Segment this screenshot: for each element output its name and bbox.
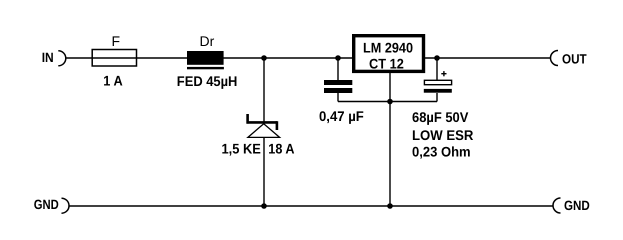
svg-text:F: F: [112, 33, 121, 49]
wire C1 bottom lead: [337, 93, 339, 102]
svg-text:0,23 Ohm: 0,23 Ohm: [412, 144, 471, 160]
node junction dot bottom rail at regulator: [387, 203, 393, 209]
svg-text:Dr: Dr: [200, 33, 215, 49]
svg-text:CT 12: CT 12: [369, 55, 404, 71]
node junction dot top rail at C1: [335, 55, 341, 61]
wire capacitor ground bus horizontal: [338, 101, 437, 103]
node junction dot top rail at diode: [261, 55, 267, 61]
wire C1 top lead: [337, 58, 339, 80]
capacitor C1 top plate: [324, 80, 352, 85]
svg-text:LM 2940: LM 2940: [363, 39, 413, 55]
wire top rail regulator to OUT: [425, 57, 551, 59]
diode D1 cathode left tick: [246, 114, 249, 124]
inductor Dr body: [187, 51, 224, 65]
svg-text:LOW ESR: LOW ESR: [412, 127, 473, 143]
diode D1 cathode right tick: [276, 121, 279, 130]
svg-text:GND: GND: [34, 197, 59, 212]
wire top rail IN to regulator: [66, 57, 353, 59]
capacitor C2 negative plate: [424, 89, 452, 93]
svg-text:GND: GND: [564, 198, 590, 213]
svg-text:18 A: 18 A: [268, 141, 294, 157]
svg-text:1 A: 1 A: [103, 73, 122, 89]
capacitor C1 bottom plate: [324, 88, 352, 93]
svg-text:IN: IN: [42, 50, 54, 65]
node junction dot ground pin and cap bus: [387, 99, 393, 105]
op-amp U1 regulator LM2940 box: [354, 36, 424, 72]
terminal GND right connector arc: [553, 198, 561, 213]
wire diode branch vertical: [263, 58, 265, 206]
wire C2 bottom lead: [436, 93, 438, 102]
node junction dot top rail at C2: [434, 55, 440, 61]
terminal OUT connector arc: [551, 51, 559, 66]
diode D1 TVS cathode bar: [247, 121, 278, 124]
wire regulator ground pin vertical: [389, 73, 391, 206]
wire bottom GND rail: [70, 205, 553, 207]
terminal GND left connector arc: [62, 198, 70, 213]
terminal IN connector arc: [58, 51, 65, 66]
diode D1 triangle: [248, 124, 280, 138]
svg-text:1,5 KE: 1,5 KE: [222, 141, 261, 157]
svg-text:68µF 50V: 68µF 50V: [412, 109, 469, 125]
svg-text:FED 45µH: FED 45µH: [177, 73, 238, 89]
wire C2 top lead: [436, 58, 438, 80]
capacitor C2 plus sign vertical: [443, 71, 445, 76]
capacitor C2 positive plate: [424, 80, 451, 84]
capacitor C2 plus sign horizontal: [441, 73, 446, 75]
svg-text:0,47 µF: 0,47 µF: [319, 108, 364, 124]
svg-text:OUT: OUT: [562, 51, 587, 66]
node junction dot bottom rail at diode: [261, 203, 267, 209]
inductor Dr core bar: [187, 67, 224, 69]
fuse F1 body: [92, 50, 136, 67]
